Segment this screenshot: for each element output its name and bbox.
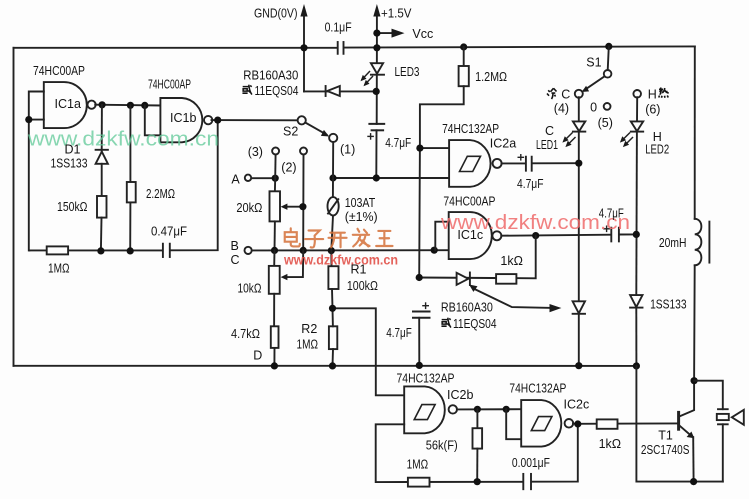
node diode bottom on rail (575, 362, 582, 369)
svg-text:IC2c: IC2c (564, 398, 590, 412)
wire oscillator feedback bottom row (29, 120, 217, 250)
NAND gate IC1b (160, 98, 212, 142)
node cap to row-1 junction (373, 174, 380, 181)
svg-text:0: 0 (590, 101, 597, 115)
wire IC2b lower input (376, 424, 408, 482)
node IC2c input tie (503, 406, 510, 413)
svg-text:IC1b: IC1b (170, 111, 196, 125)
Vcc arrow (377, 29, 405, 38)
wire IC1a output row (95, 104, 160, 107)
label re glyph (659, 88, 669, 98)
wire top ground bus left segment (14, 47, 338, 49)
node D / 4.7k bottom on rail (271, 362, 278, 369)
diode RB160A30 (below LED1) (573, 301, 585, 365)
svg-text:74HC00AP: 74HC00AP (148, 78, 191, 92)
resistor 56k(F) (473, 409, 483, 481)
svg-text:2.2MΩ: 2.2MΩ (146, 187, 175, 201)
svg-text:20kΩ: 20kΩ (236, 201, 262, 215)
wire GND to diode line (304, 90, 376, 92)
wire IC1a inputs tie (29, 92, 44, 251)
resistor 1.2M (459, 47, 469, 86)
svg-text:1SS133: 1SS133 (51, 157, 88, 171)
diode RB160A30 (GND line) (326, 86, 340, 96)
svg-text:C: C (231, 253, 240, 267)
node 2.2M bottom (127, 247, 134, 254)
svg-text:11EQS04: 11EQS04 (453, 317, 497, 331)
node +1.5V on bus (373, 44, 380, 51)
node IC1a out to 2.2M (127, 102, 134, 109)
NAND gate IC1c (449, 212, 502, 259)
capacitor 4.7uF (LED2 line) (604, 226, 636, 241)
diode 1SS133 (below LED2) (630, 295, 642, 366)
wire (1) node to IC2a lower input (333, 177, 449, 179)
NAND gate IC1a (44, 82, 96, 128)
node wiper line on B/C row (300, 247, 307, 254)
LED2 (620, 97, 643, 295)
svg-text:1.2MΩ: 1.2MΩ (475, 70, 507, 84)
LED3 (361, 48, 385, 124)
svg-text:20mH: 20mH (659, 236, 687, 250)
transistor T1 2SC1740S (679, 381, 695, 482)
svg-text:LED3: LED3 (395, 65, 420, 79)
NAND gate IC2a (schmitt) (449, 140, 502, 187)
svg-text:C: C (545, 124, 554, 138)
wire IC1c 1k/diode branch (419, 236, 536, 279)
diode RB160A30 (IC1c line) (457, 273, 470, 286)
resistor 1k (base) (597, 419, 618, 428)
svg-text:(6): (6) (645, 103, 660, 117)
capacitor 0.001uF (523, 474, 531, 489)
resistor 4.7k (271, 326, 279, 366)
terminal (5) (604, 103, 611, 110)
resistor 1M (left) (47, 246, 68, 254)
svg-text:D: D (253, 349, 262, 363)
node S1 on bus (605, 43, 612, 50)
svg-text:H: H (648, 88, 657, 102)
svg-text:+1.5V: +1.5V (381, 7, 412, 21)
wire top Vcc bus right segment (344, 46, 695, 47)
NAND gate IC2c (schmitt) (521, 400, 573, 447)
label leng glyph (547, 88, 557, 99)
svg-text:1kΩ: 1kΩ (500, 254, 523, 268)
resistor R1 100k (328, 251, 338, 309)
potentiometer 20k (270, 178, 303, 250)
svg-text:103AT: 103AT (345, 196, 376, 210)
wire 1SS133 branch down to emitter rail (636, 366, 722, 482)
svg-text:www.dzkfw.com.cn: www.dzkfw.com.cn (27, 129, 219, 151)
svg-text:10kΩ: 10kΩ (238, 282, 262, 296)
terminal (6) (633, 90, 641, 98)
svg-text:C: C (561, 88, 570, 102)
capacitor 4.7uF (below LED3) (368, 124, 384, 178)
svg-text:(2): (2) (281, 161, 296, 175)
svg-text:74HC132AP: 74HC132AP (509, 382, 566, 396)
wire 1.2M to IC2a input and down (419, 86, 464, 277)
diode D1 1SS133 (96, 105, 108, 196)
wire IC2c output to base (573, 422, 679, 424)
svg-text:4.7μF: 4.7μF (517, 177, 544, 191)
wire left border rail (13, 48, 15, 366)
svg-text:LED2: LED2 (645, 143, 669, 157)
node 103AT bottom on B/C row (328, 247, 335, 254)
resistor 2.2M (127, 105, 136, 251)
thermistor 103AT (328, 178, 339, 251)
node IC2b out to 56k (474, 406, 481, 413)
svg-text:74HC00AP: 74HC00AP (443, 195, 495, 209)
wire IC1b input tie (145, 105, 161, 135)
svg-text:(4): (4) (554, 102, 569, 116)
potentiometer 10k (269, 250, 303, 326)
svg-text:74HC132AP: 74HC132AP (397, 372, 455, 386)
svg-text:4.7kΩ: 4.7kΩ (231, 327, 260, 341)
wire IC1c output row (501, 235, 611, 236)
svg-text:A: A (231, 173, 240, 187)
node IC1a out to D1 (99, 101, 106, 108)
wire feedback rail bottom (408, 481, 523, 483)
svg-text:(3): (3) (248, 145, 263, 159)
node 150k bottom (97, 247, 104, 254)
svg-text:4.7μF: 4.7μF (599, 207, 624, 221)
svg-text:B: B (231, 239, 239, 253)
node Vcc tap (373, 29, 380, 36)
node R2 bottom on rail (329, 362, 336, 369)
node IC1c input tie (431, 247, 438, 254)
resistor 150k (97, 196, 107, 251)
svg-text:1MΩ: 1MΩ (407, 458, 429, 472)
svg-text:RB160A30: RB160A30 (441, 301, 493, 315)
resistor R2 1M (329, 308, 337, 366)
node GND on bus (300, 44, 307, 51)
node (1) drop junction (329, 174, 336, 181)
node 1.2M top on bus (460, 43, 467, 50)
capacitor 4.7uF (IC2a output) (502, 155, 579, 171)
node collector junction (691, 377, 698, 384)
svg-text:IC2a: IC2a (490, 137, 516, 151)
inductor 20mH (694, 46, 709, 380)
node IC1b input tie (141, 102, 148, 109)
svg-text:RB160A30: RB160A30 (243, 69, 298, 83)
svg-text:74HC132AP: 74HC132AP (442, 122, 499, 136)
svg-text:1MΩ: 1MΩ (297, 338, 319, 352)
NAND gate IC2b (schmitt) (404, 386, 457, 433)
wire bottom ground rail (14, 365, 637, 367)
annotation arrow to diodes (469, 285, 561, 313)
svg-text:1MΩ: 1MΩ (48, 262, 70, 276)
node 4.7uF bottom on rail (416, 362, 423, 369)
svg-text:4.7μF: 4.7μF (386, 326, 412, 340)
svg-text:R2: R2 (301, 322, 317, 336)
svg-text:S2: S2 (283, 125, 298, 139)
svg-text:IC1c: IC1c (457, 228, 483, 242)
terminal B/C (245, 247, 252, 254)
svg-text:100kΩ: 100kΩ (347, 279, 378, 293)
svg-text:LED1: LED1 (536, 138, 558, 152)
terminal (2) (300, 148, 307, 251)
svg-text:2SC1740S: 2SC1740S (641, 443, 690, 457)
terminal (3) (272, 148, 279, 179)
+1.5V arrow (373, 4, 380, 48)
svg-text:0.1μF: 0.1μF (325, 21, 352, 35)
svg-text:1SS133: 1SS133 (650, 298, 687, 312)
svg-text:150kΩ: 150kΩ (57, 200, 88, 214)
svg-text:GND(0V): GND(0V) (254, 7, 298, 21)
svg-text:(±1%): (±1%) (345, 210, 378, 224)
wire IC2c input tie (506, 409, 521, 439)
svg-text:74HC00AP: 74HC00AP (33, 64, 85, 78)
wire IC1b output to S2 (212, 119, 298, 121)
LED1 (562, 97, 585, 301)
svg-text:4.7μF: 4.7μF (385, 136, 411, 150)
svg-text:1kΩ: 1kΩ (599, 437, 622, 451)
GND(0V) arrow (300, 4, 307, 91)
watermark dianzi kaifawang (285, 228, 393, 247)
node LED3 cathode junction (373, 88, 380, 95)
svg-text:IC1a: IC1a (55, 97, 81, 111)
wire B/C row to IC1c inputs (251, 249, 449, 251)
capacitor 0.1uF (338, 42, 344, 54)
node 10k top on B/C row (271, 247, 278, 254)
resistor 1M (bottom) (408, 478, 430, 487)
switch S1 (575, 46, 612, 97)
svg-text:0.47μF: 0.47μF (151, 225, 187, 239)
capacitor 4.7uF electrolytic (timing) (413, 303, 430, 365)
svg-text:T1: T1 (658, 429, 673, 443)
switch S2 (298, 116, 338, 142)
resistor 1k (IC1c) (496, 274, 516, 284)
label 11EQS04 huo glyph top (242, 85, 251, 95)
wire IC1c input tie (435, 222, 448, 251)
svg-text:Vcc: Vcc (412, 27, 433, 41)
piezo speaker (694, 381, 744, 482)
capacitor 0.47uF (163, 244, 170, 257)
svg-text:56k(F): 56k(F) (426, 439, 458, 453)
wire S2 to (1) node (332, 142, 334, 178)
wire IC2b output row (457, 408, 521, 410)
svg-text:(1): (1) (340, 143, 355, 157)
svg-text:S1: S1 (586, 56, 601, 70)
wire R1/R2 node to IC2b input (333, 308, 405, 395)
node 1SS133 branch on rail (633, 362, 640, 369)
terminal A (245, 175, 251, 181)
node A terminal junction (272, 175, 279, 182)
svg-text:D1: D1 (65, 143, 81, 157)
label 11EQS04 huo glyph bottom (441, 318, 450, 328)
node emitter junction (690, 478, 697, 485)
node IC1a input tie (25, 116, 32, 123)
svg-text:11EQS04: 11EQS04 (255, 84, 299, 98)
wire A terminal segment (251, 177, 275, 179)
svg-text:0.001μF: 0.001μF (512, 456, 550, 470)
svg-text:IC2b: IC2b (447, 388, 473, 402)
svg-text:(5): (5) (598, 116, 613, 130)
svg-text:www.dzkfw.com.cn: www.dzkfw.com.cn (283, 253, 398, 268)
